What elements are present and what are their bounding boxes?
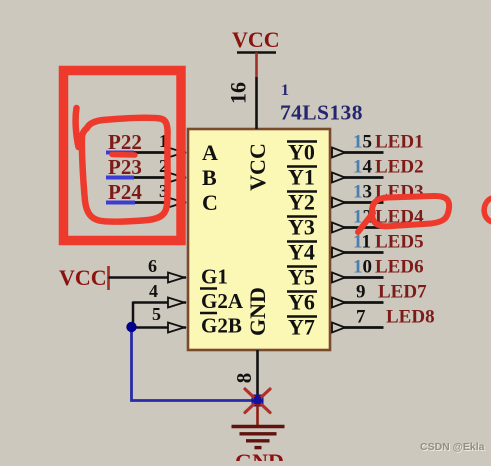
svg-text:4: 4	[149, 281, 158, 301]
svg-text:VCC: VCC	[232, 27, 280, 52]
svg-text:Y5: Y5	[288, 265, 315, 290]
svg-text:15: 15	[353, 132, 372, 153]
svg-text:VCC: VCC	[59, 265, 107, 290]
svg-text:9: 9	[356, 282, 366, 303]
svg-text:14: 14	[353, 157, 373, 178]
svg-text:Y3: Y3	[288, 215, 315, 240]
svg-text:6: 6	[148, 256, 157, 276]
svg-text:LED6: LED6	[375, 257, 424, 278]
svg-text:G1: G1	[201, 265, 228, 289]
svg-text:GND: GND	[235, 449, 284, 461]
svg-text:P23: P23	[108, 155, 142, 179]
svg-text:74LS138: 74LS138	[280, 101, 363, 125]
svg-text:P24: P24	[108, 180, 142, 204]
svg-text:C: C	[202, 190, 218, 215]
svg-text:LED2: LED2	[375, 157, 424, 178]
svg-text:13: 13	[353, 182, 372, 203]
svg-text:Y0: Y0	[288, 140, 315, 165]
svg-text:LED7: LED7	[378, 282, 427, 303]
svg-text:8: 8	[232, 373, 256, 384]
svg-text:LED8: LED8	[386, 307, 435, 328]
svg-text:Y2: Y2	[288, 190, 315, 215]
svg-text:LED1: LED1	[375, 132, 424, 153]
svg-text:B: B	[202, 165, 217, 190]
svg-text:GND: GND	[245, 287, 270, 336]
svg-text:G2B: G2B	[201, 314, 242, 338]
svg-text:Y1: Y1	[288, 165, 315, 190]
svg-text:VCC: VCC	[245, 143, 270, 191]
svg-text:P22: P22	[108, 130, 142, 154]
svg-text:LED5: LED5	[375, 232, 424, 253]
svg-text:Y4: Y4	[288, 240, 315, 265]
svg-text:1: 1	[281, 82, 289, 99]
svg-text:Y7: Y7	[288, 315, 315, 340]
svg-text:11: 11	[353, 232, 371, 253]
svg-text:16: 16	[226, 82, 251, 104]
svg-text:A: A	[202, 140, 218, 165]
svg-text:7: 7	[356, 307, 366, 328]
svg-text:G2A: G2A	[201, 289, 244, 313]
svg-text:Y6: Y6	[288, 290, 315, 315]
svg-text:5: 5	[152, 304, 161, 324]
svg-text:10: 10	[353, 257, 372, 278]
